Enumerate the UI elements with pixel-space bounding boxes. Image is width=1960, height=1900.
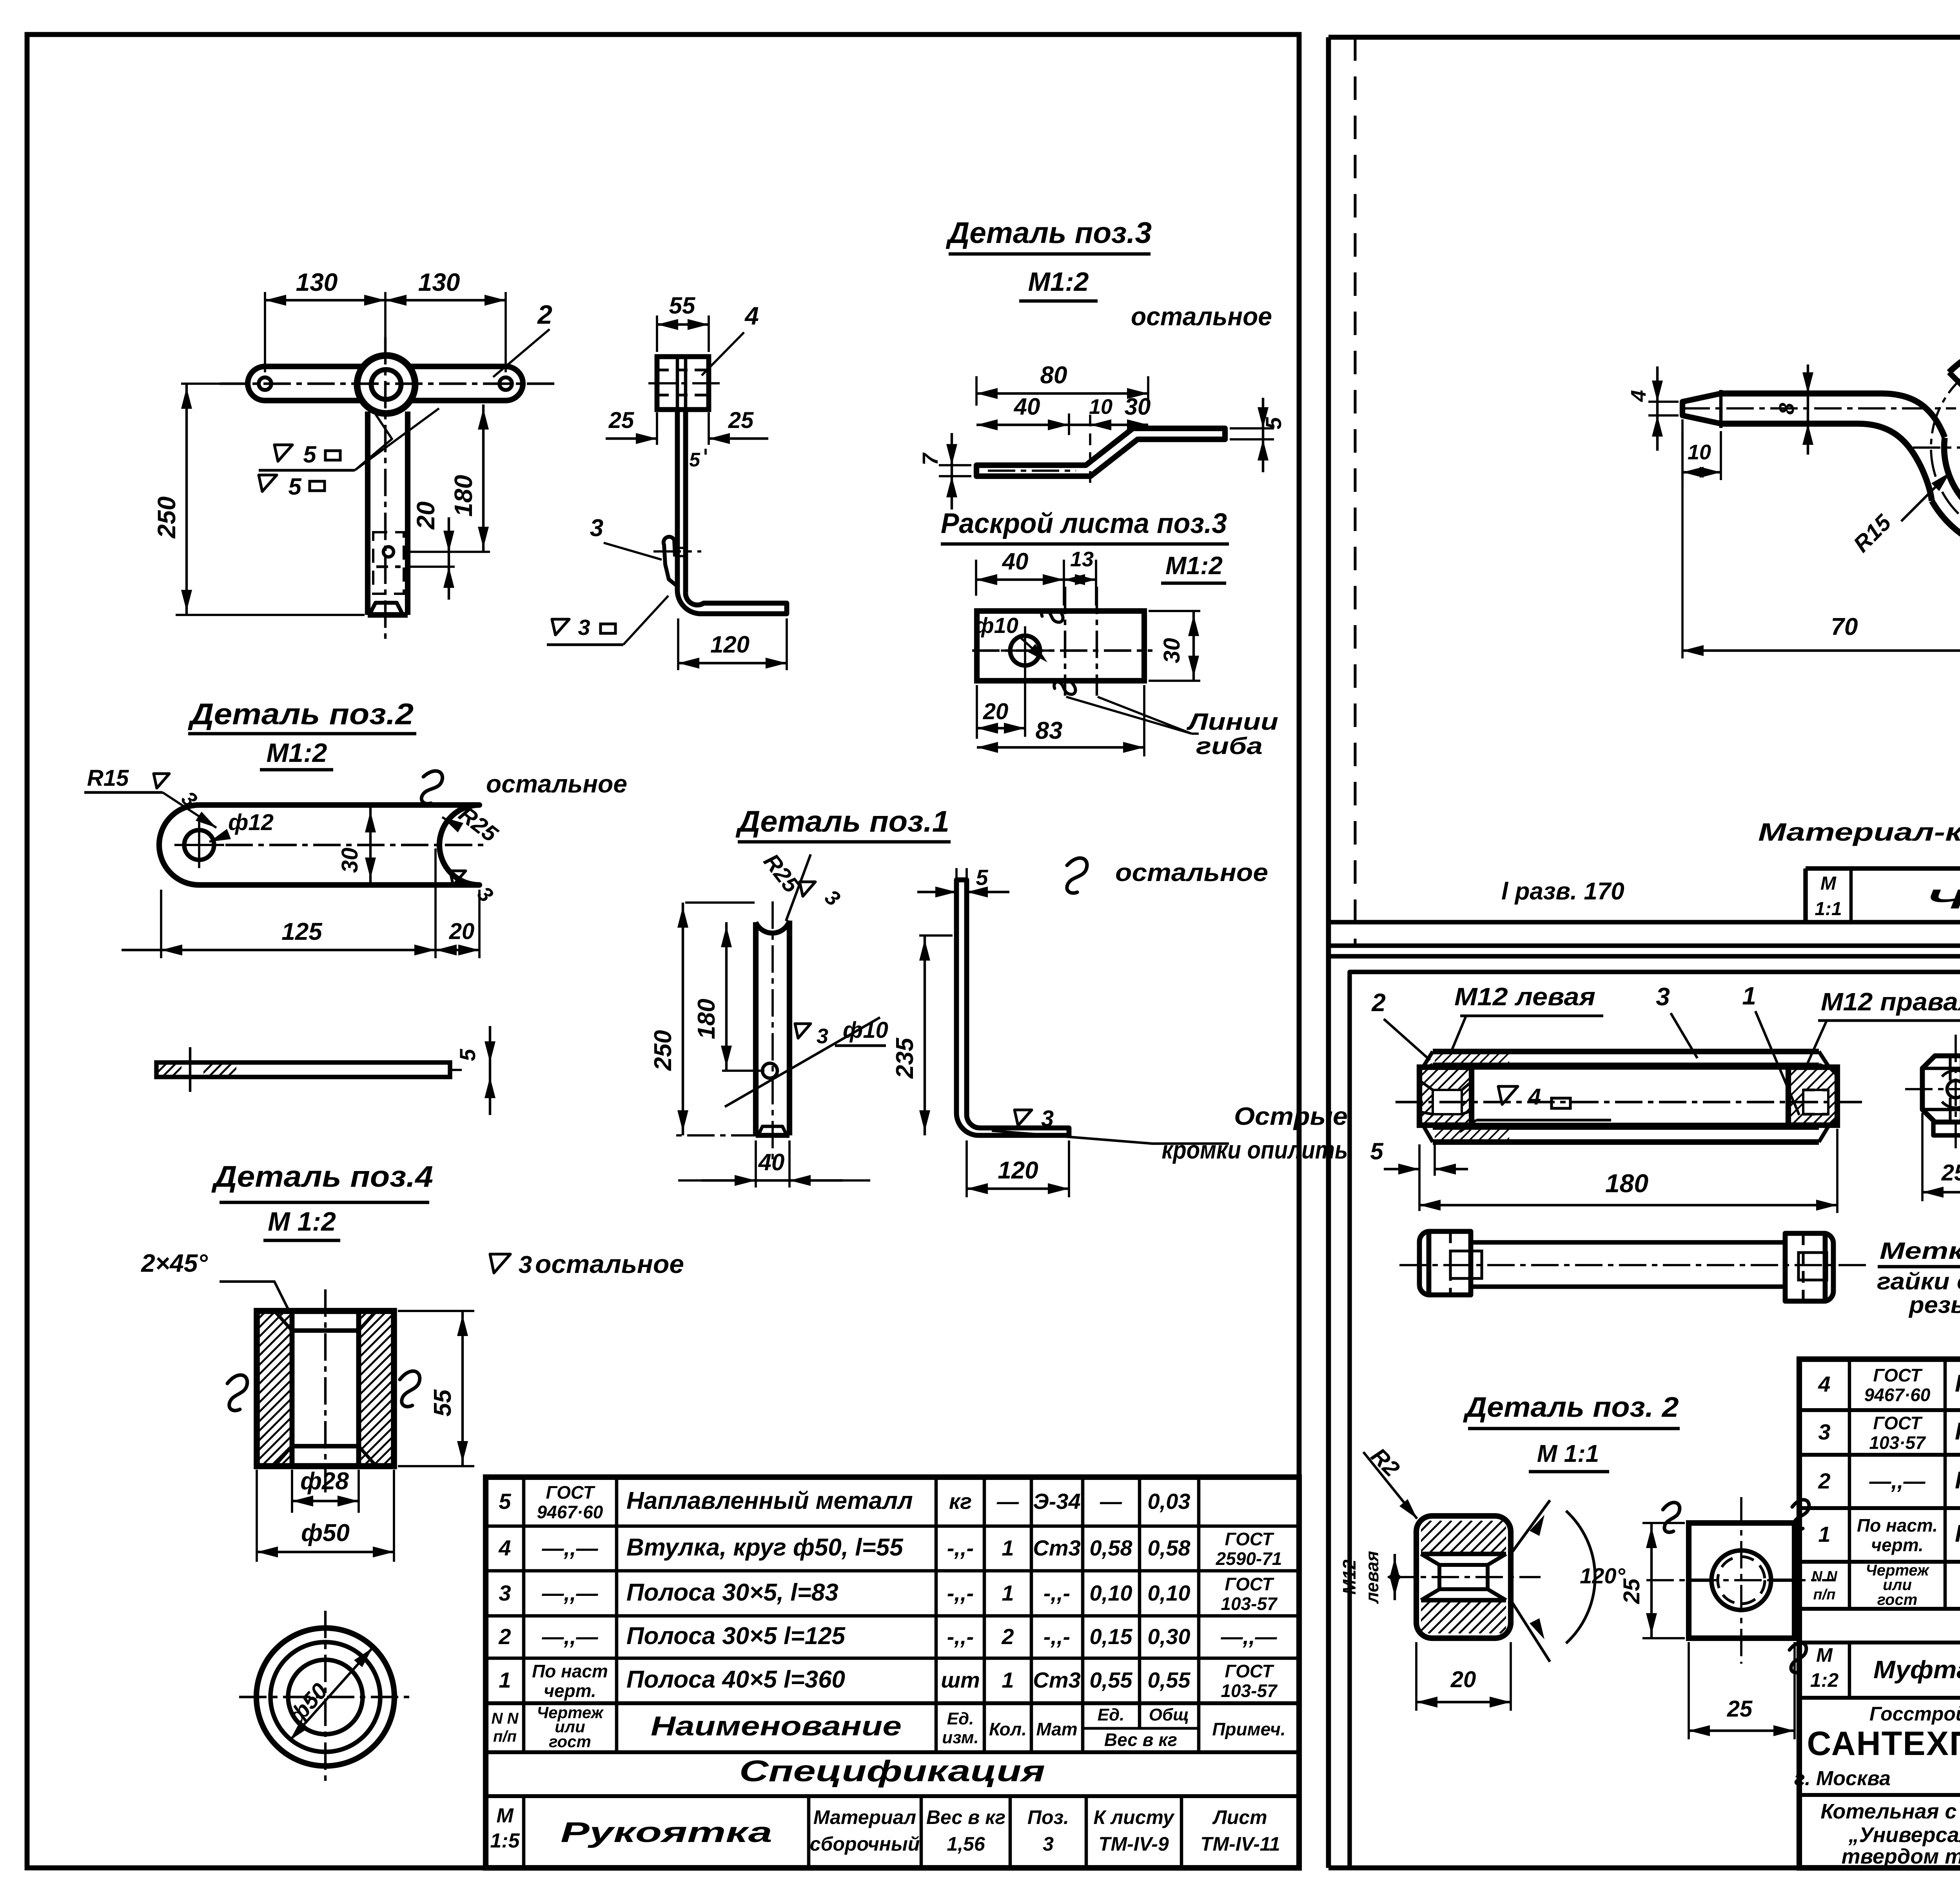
svg-text:гост: гост: [1877, 1591, 1918, 1608]
svg-text:1: 1: [1002, 1668, 1014, 1692]
fold line squiggles: [1041, 608, 1063, 622]
svg-text:0,55: 0,55: [1090, 1668, 1133, 1692]
svg-text:Чека: Чека: [1926, 884, 1960, 914]
svg-text:М: М: [1816, 1644, 1833, 1666]
ring end cut: [1949, 372, 1960, 391]
svg-text:103-57: 103-57: [1221, 1681, 1278, 1701]
svg-text:2590-71: 2590-71: [1216, 1548, 1282, 1569]
svg-text:2: 2: [1818, 1469, 1830, 1493]
flag 3 left: [154, 774, 169, 788]
svg-text:ТМ-IV-11: ТМ-IV-11: [1200, 1833, 1280, 1855]
centerline bar horizontal: [220, 383, 557, 385]
svg-text:120: 120: [710, 631, 750, 658]
svg-text:Вес в кг: Вес в кг: [1104, 1730, 1177, 1750]
dim 180 pos1: [722, 1070, 764, 1072]
pos1 right view L profile: [956, 880, 1069, 1135]
svg-text:4: 4: [1627, 390, 1650, 402]
svg-text:1:5: 1:5: [490, 1829, 520, 1852]
svg-text:-,,-: -,,-: [947, 1581, 974, 1605]
svg-text:0,58: 0,58: [1090, 1536, 1133, 1560]
svg-text:М1:2: М1:2: [267, 738, 327, 768]
end view flats: [1933, 1122, 1960, 1135]
svg-text:остальное: остальное: [486, 770, 627, 798]
svg-text:2×45°: 2×45°: [141, 1249, 208, 1277]
svg-text:Спецификация: Спецификация: [739, 1755, 1045, 1788]
svg-text:1: 1: [1742, 982, 1756, 1010]
svg-text:40: 40: [758, 1149, 785, 1175]
svg-text:—,,—: —,,—: [1869, 1469, 1926, 1493]
svg-text:Мат: Мат: [1036, 1719, 1077, 1739]
svg-text:180: 180: [1605, 1169, 1648, 1198]
svg-text:Ед.: Ед.: [1098, 1705, 1125, 1724]
svg-text:5: 5: [689, 449, 701, 471]
fold lines raskroj: [1064, 587, 1066, 696]
svg-text:кг: кг: [949, 1489, 972, 1514]
svg-text:5: 5: [1261, 417, 1286, 430]
svg-text:ТМ-IV-9: ТМ-IV-9: [1098, 1833, 1169, 1855]
svg-text:Гайка левая: Гайка левая: [1955, 1467, 1960, 1494]
svg-text:13: 13: [1070, 548, 1094, 571]
svg-text:—,,—: —,,—: [541, 1624, 598, 1649]
svg-text:30: 30: [1159, 638, 1185, 664]
vertical bar of L: [675, 410, 680, 590]
dim 5 right pos3: [1230, 427, 1274, 430]
dim 70: [1681, 431, 1684, 658]
dim 25 end view: [1921, 1113, 1924, 1201]
dim 250 pos1: [685, 901, 755, 904]
plate centerline: [225, 844, 488, 846]
svg-text:130: 130: [296, 268, 338, 296]
svg-text:3: 3: [1656, 983, 1670, 1011]
svg-text:Котельная с 4 котлами: Котельная с 4 котлами: [1820, 1800, 1960, 1823]
svg-text:ф10: ф10: [975, 613, 1018, 638]
dim 250: [181, 383, 240, 385]
svg-text:резьбой: резьбой: [1908, 1292, 1960, 1318]
dim 83: [1143, 685, 1145, 756]
svg-text:250: 250: [152, 497, 181, 539]
svg-text:55: 55: [669, 292, 696, 319]
svg-text:80: 80: [1040, 362, 1067, 389]
svg-text:83: 83: [1036, 717, 1063, 744]
svg-text:Э-34: Э-34: [1033, 1489, 1080, 1514]
svg-text:4: 4: [744, 302, 759, 330]
svg-text:М12 правая: М12 правая: [1821, 988, 1960, 1016]
right sheet borders: [1326, 37, 1331, 1868]
svg-text:20: 20: [412, 501, 440, 529]
svg-text:М1:2: М1:2: [1028, 267, 1089, 297]
fold dashed line pos3: [1089, 415, 1091, 486]
dim 5 top: [917, 891, 956, 893]
hub inner: [371, 370, 401, 399]
svg-text:Метка для: Метка для: [1880, 1238, 1960, 1264]
L bend into foot: [677, 590, 787, 614]
svg-text:черт.: черт.: [544, 1681, 596, 1701]
svg-text:Деталь поз.1: Деталь поз.1: [735, 805, 949, 838]
svg-text:изм.: изм.: [942, 1728, 979, 1747]
dim 25 left pos2r: [1642, 1522, 1685, 1524]
svg-text:Наплавленный металл: Наплавленный металл: [1955, 1370, 1960, 1397]
svg-text:Полоса 30×5 l=125: Полоса 30×5 l=125: [626, 1623, 846, 1650]
dim 120 L: [965, 1140, 968, 1197]
pos2r square view: [1689, 1523, 1795, 1638]
svg-text:Общ: Общ: [1149, 1705, 1189, 1724]
second view rod: [1471, 1240, 1785, 1244]
bent ear tab: [664, 537, 677, 586]
svg-text:5: 5: [303, 441, 317, 468]
dim 5 strip: [489, 1026, 491, 1115]
dim 125 / 20: [160, 890, 162, 958]
dim 30 right: [1149, 610, 1200, 612]
dim 55: [398, 1310, 474, 1312]
svg-text:Раскрой листа поз.3: Раскрой листа поз.3: [941, 508, 1227, 539]
hole f10: [1010, 636, 1040, 665]
svg-text:103·57: 103·57: [1869, 1432, 1926, 1453]
dim 180: [409, 551, 490, 553]
svg-text:40: 40: [1014, 393, 1040, 420]
svg-text:Лист: Лист: [1212, 1806, 1267, 1828]
svg-text:3: 3: [519, 1251, 532, 1278]
svg-text:Деталь поз. 2: Деталь поз. 2: [1463, 1392, 1679, 1423]
svg-text:0,10: 0,10: [1148, 1581, 1191, 1605]
svg-text:-,,-: -,,-: [947, 1536, 974, 1560]
svg-text:ф10: ф10: [843, 1017, 888, 1043]
svg-text:4: 4: [498, 1536, 511, 1560]
svg-text:30: 30: [1125, 393, 1151, 420]
svg-text:г. Москва: г. Москва: [1794, 1767, 1891, 1790]
slot hole: [383, 547, 394, 557]
right spec table: [1799, 1359, 1960, 1868]
dim 80: [975, 376, 978, 406]
svg-text:Поз.: Поз.: [1027, 1806, 1069, 1828]
dim 20: [408, 566, 455, 568]
pos1 hole: [762, 1063, 777, 1078]
mufta bottom strip: [1433, 1125, 1819, 1129]
svg-text:5: 5: [1370, 1138, 1384, 1164]
svg-text:—: —: [1100, 1489, 1122, 1514]
svg-text:гост: гост: [549, 1732, 591, 1751]
svg-text:0,55: 0,55: [1148, 1668, 1191, 1692]
mufta top strip: [1433, 1049, 1819, 1054]
svg-text:М 1:2: М 1:2: [268, 1207, 336, 1236]
svg-text:1:1: 1:1: [1815, 899, 1842, 919]
dims 40 10 30: [1068, 413, 1070, 435]
svg-text:0,58: 0,58: [1148, 1536, 1191, 1560]
svg-text:20: 20: [449, 919, 475, 944]
svg-text:-,,-: -,,-: [947, 1624, 974, 1649]
svg-text:Полоса 16×5; l=170: Полоса 16×5; l=170: [1955, 1418, 1960, 1445]
svg-text:Гайка правая: Гайка правая: [1955, 1520, 1960, 1547]
bottom line and chamfer: [756, 1133, 789, 1138]
svg-text:Вес в кг: Вес в кг: [926, 1806, 1005, 1828]
svg-text:10: 10: [1089, 395, 1112, 419]
svg-text:9467·60: 9467·60: [537, 1502, 603, 1522]
svg-text:ГОСТ: ГОСТ: [1225, 1661, 1275, 1681]
svg-text:3: 3: [1041, 1106, 1054, 1131]
svg-text:1,56: 1,56: [947, 1833, 985, 1855]
svg-text:30: 30: [337, 848, 363, 873]
svg-text:N N: N N: [1811, 1568, 1838, 1585]
svg-text:Деталь поз.3: Деталь поз.3: [946, 216, 1152, 250]
svg-text:гиба: гиба: [1196, 733, 1263, 759]
mufta right nut: [1788, 1067, 1837, 1125]
svg-text:1: 1: [1818, 1522, 1830, 1546]
tip taper: [1682, 393, 1721, 424]
svg-text:Материал-круг ф8; гост 259: Материал-круг ф8; гост 2590·71: [1758, 818, 1960, 846]
svg-text:0,03: 0,03: [1148, 1489, 1191, 1514]
svg-text:Деталь поз.2: Деталь поз.2: [187, 698, 414, 731]
svg-text:По наст: По наст: [532, 1661, 608, 1681]
svg-text:Деталь поз.4: Деталь поз.4: [211, 1160, 433, 1193]
svg-text:ф50: ф50: [301, 1519, 350, 1546]
svg-text:твердом топливе: твердом топливе: [1842, 1845, 1960, 1868]
svg-text:левая: левая: [1362, 1551, 1382, 1604]
svg-text:Госстрой СССР: Госстрой СССР: [1869, 1703, 1960, 1725]
cheka table: [1806, 866, 1960, 870]
svg-text:3: 3: [578, 615, 590, 640]
plate hole: [184, 830, 214, 860]
finish leader: [355, 411, 392, 470]
plate pos2 outline: [159, 805, 479, 885]
dim 120 foot: [677, 618, 679, 670]
dim 40 pos1: [755, 1140, 757, 1187]
svg-text:2: 2: [498, 1624, 511, 1649]
svg-text:R15: R15: [87, 765, 129, 791]
pos2 side strip: [156, 1062, 450, 1077]
svg-text:9467·60: 9467·60: [1864, 1385, 1931, 1405]
dim f50: [256, 1470, 258, 1562]
svg-text:8: 8: [1775, 403, 1798, 415]
flag 3 right: [450, 871, 466, 885]
flag 3 foot: [552, 619, 569, 635]
svg-text:2: 2: [537, 300, 552, 330]
svg-text:5: 5: [976, 865, 988, 890]
pos1 centerline: [771, 901, 774, 1162]
svg-text:Кол.: Кол.: [989, 1719, 1027, 1739]
svg-text:1: 1: [1002, 1581, 1014, 1605]
fold dash line: [1354, 37, 1356, 946]
svg-text:1: 1: [1002, 1536, 1014, 1560]
end view circle: [1947, 1081, 1960, 1098]
flag3 top: [800, 882, 815, 896]
svg-text:остальное: остальное: [535, 1249, 684, 1278]
shank centerline: [1682, 407, 1956, 410]
svg-text:Муфта сварная: Муфта сварная: [1873, 1655, 1960, 1684]
svg-text:Наименование: Наименование: [651, 1711, 902, 1741]
svg-text:5: 5: [288, 473, 302, 500]
svg-text:4: 4: [1528, 1084, 1541, 1110]
svg-text:25: 25: [1727, 1696, 1753, 1722]
left sheet border: [27, 34, 1299, 1868]
svg-text:По наст.: По наст.: [1857, 1515, 1938, 1536]
svg-text:Ед.: Ед.: [947, 1709, 974, 1728]
lower box frame: [1350, 972, 1960, 1868]
svg-text:М1:2: М1:2: [1165, 551, 1223, 580]
svg-text:—,,—: —,,—: [541, 1581, 598, 1605]
svg-text:п/п: п/п: [1813, 1586, 1836, 1603]
svg-text:180: 180: [449, 475, 477, 517]
bushing centerline: [324, 1289, 327, 1493]
svg-text:10: 10: [1688, 441, 1711, 464]
block on top of bar: [657, 357, 709, 410]
snake marks bushing: [227, 1375, 247, 1410]
v4 finish mark: [1498, 1086, 1518, 1104]
dim 30 plate: [369, 807, 372, 883]
divider double line: [1328, 943, 1960, 948]
mufta second view: [1429, 1231, 1471, 1295]
label v3 f10: [725, 1017, 880, 1107]
svg-text:1: 1: [499, 1668, 511, 1692]
finish marks v5: [274, 445, 292, 461]
svg-text:-,,-: -,,-: [1044, 1581, 1070, 1605]
svg-text:20: 20: [983, 699, 1009, 724]
svg-text:25: 25: [1619, 1578, 1644, 1604]
hub outer: [357, 355, 415, 413]
svg-text:М12: М12: [1339, 1559, 1359, 1595]
Z profile pos3: [976, 428, 1225, 476]
svg-text:САНТЕХПРОЕКТ: САНТЕХПРОЕКТ: [1807, 1725, 1960, 1762]
svg-text:сборочный: сборочный: [810, 1833, 920, 1855]
svg-text:3: 3: [817, 1024, 828, 1048]
centerline hub vertical: [384, 337, 387, 639]
svg-text:ГОСТ: ГОСТ: [1225, 1574, 1275, 1594]
rect centerline: [972, 649, 1152, 652]
svg-text:120: 120: [998, 1157, 1038, 1184]
svg-text:25: 25: [608, 408, 634, 433]
svg-text:Полоса 30×5, l=83: Полоса 30×5, l=83: [626, 1579, 838, 1606]
dim 20: [976, 685, 978, 739]
dim 120 pos2r: [1511, 1500, 1550, 1554]
svg-text:3: 3: [590, 515, 603, 542]
left spec table: [486, 1477, 1299, 1868]
svg-text:55: 55: [429, 1389, 456, 1416]
note v3 остальное: [490, 1254, 510, 1273]
mufta left nut: [1419, 1067, 1472, 1125]
svg-text:20: 20: [1450, 1667, 1476, 1692]
svg-text:„Универсал·6м” на: „Универсал·6м” на: [1848, 1823, 1960, 1847]
mufta centerline: [1396, 1101, 1866, 1103]
svg-text:ГОСТ: ГОСТ: [1873, 1365, 1923, 1385]
svg-text:125: 125: [281, 918, 323, 945]
svg-text:0,15: 0,15: [1090, 1624, 1133, 1649]
hook ring inner arc: [1944, 367, 1960, 528]
bushing section outline: [257, 1311, 394, 1466]
svg-text:40: 40: [1002, 548, 1029, 575]
dim 20 pos2r: [1415, 1642, 1417, 1711]
pos2r section: [1416, 1516, 1511, 1638]
dim 7 left: [939, 464, 971, 466]
dim 180 mufta: [1836, 1129, 1838, 1213]
flag3 at L foot: [1014, 1110, 1032, 1126]
svg-text:—,,—: —,,—: [1220, 1624, 1277, 1649]
dim 55 block: [656, 315, 658, 352]
f50 diagonal label: [290, 1648, 372, 1740]
mufta mid lines: [1472, 1065, 1788, 1070]
svg-text:3: 3: [1043, 1833, 1054, 1855]
dim 4 tip: [1648, 401, 1679, 403]
note snake остальное: [419, 769, 444, 806]
svg-text:остальное: остальное: [1115, 858, 1268, 887]
svg-text:шт: шт: [941, 1668, 980, 1692]
svg-text:0,10: 0,10: [1090, 1581, 1132, 1605]
svg-text:М: М: [1820, 873, 1837, 894]
dim 10: [1681, 419, 1684, 480]
hook ring outer arc: [1932, 341, 1960, 555]
svg-text:Полоса 40×5 l=360: Полоса 40×5 l=360: [626, 1666, 845, 1693]
svg-text:ф28: ф28: [300, 1468, 349, 1495]
svg-text:180: 180: [693, 999, 720, 1039]
svg-text:4: 4: [1818, 1372, 1830, 1396]
svg-text:5: 5: [455, 1049, 480, 1061]
svg-text:Материал: Материал: [813, 1806, 916, 1828]
svg-text:Ст3: Ст3: [1033, 1668, 1080, 1692]
bushing bore lines: [290, 1311, 295, 1466]
dim 235: [919, 934, 953, 937]
dim 25 bottom pos2r: [1688, 1642, 1690, 1739]
svg-text:70: 70: [1831, 613, 1858, 640]
shank bottom edge: [1721, 424, 1932, 501]
svg-text:-,,-: -,,-: [1044, 1624, 1070, 1649]
ear dashes: [680, 547, 687, 549]
svg-text:N N: N N: [492, 1710, 519, 1727]
handle assembly: horizontal bar: [265, 366, 506, 401]
svg-text:Линии: Линии: [1186, 709, 1278, 735]
svg-text:Рукоятка: Рукоятка: [561, 1817, 772, 1848]
svg-text:Примеч.: Примеч.: [1212, 1719, 1285, 1739]
vertical bar: [365, 412, 370, 615]
mufta end view: [1922, 1056, 1960, 1122]
snakes pos2r: [1663, 1503, 1680, 1532]
svg-text:остальное: остальное: [1131, 302, 1272, 331]
svg-text:Наплавленный металл: Наплавленный металл: [626, 1487, 913, 1514]
svg-text:5: 5: [499, 1489, 511, 1514]
bottom cap trapezoid: [369, 603, 403, 615]
svg-text:103-57: 103-57: [1221, 1594, 1278, 1614]
note snake остальное pos1: [1065, 857, 1087, 894]
svg-text:3: 3: [1818, 1420, 1830, 1444]
svg-text:2: 2: [1371, 988, 1386, 1017]
svg-text:п/п: п/п: [493, 1728, 517, 1745]
svg-text:3: 3: [499, 1581, 511, 1605]
svg-text:2: 2: [1001, 1624, 1014, 1649]
blank rectangle: [977, 611, 1144, 681]
svg-text:ГОСТ: ГОСТ: [1873, 1413, 1923, 1433]
svg-text:ГОСТ: ГОСТ: [546, 1482, 596, 1503]
dim 130 130: [264, 292, 266, 372]
svg-text:250: 250: [650, 1030, 677, 1071]
svg-text:гайки с левой: гайки с левой: [1877, 1268, 1960, 1294]
svg-text:7: 7: [918, 452, 942, 466]
svg-text:ф12: ф12: [228, 810, 274, 835]
dashed slot rect on bar: [373, 532, 404, 594]
svg-text:25: 25: [728, 408, 754, 433]
bushing bottom view circles: [256, 1628, 394, 1766]
svg-text:М12 левая: М12 левая: [1454, 983, 1595, 1011]
svg-text:К листу: К листу: [1093, 1806, 1174, 1828]
shank top edge: [1721, 393, 1945, 437]
second view right nut: [1785, 1233, 1825, 1301]
svg-text:235: 235: [891, 1037, 918, 1079]
svg-text:1:2: 1:2: [1810, 1669, 1838, 1691]
svg-text:ГОСТ: ГОСТ: [1225, 1529, 1275, 1549]
svg-text:—: —: [996, 1489, 1019, 1514]
svg-text:0,30: 0,30: [1148, 1624, 1191, 1649]
svg-text:130: 130: [418, 268, 460, 296]
svg-text:кромки опилить: кромки опилить: [1162, 1136, 1348, 1164]
second view nut details: [1449, 1231, 1452, 1295]
bar end holes: [259, 377, 271, 390]
pos1 left view bar: [753, 922, 759, 1135]
bushing chamfer diagonals: [274, 1311, 376, 1466]
